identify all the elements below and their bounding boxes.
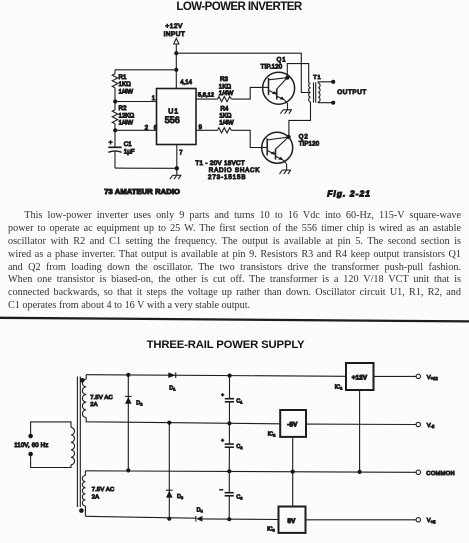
svg-text:1μF: 1μF [124, 148, 135, 155]
wire ground rail bottom [115, 167, 177, 169]
svg-text:–: – [220, 487, 223, 493]
node dot bottom rail C3 [227, 517, 231, 521]
wire +12V input vertical [175, 44, 177, 89]
wire pin 7 [176, 145, 178, 176]
svg-text:+: + [221, 438, 224, 443]
node dot rail2 C1-C2 junction [227, 421, 231, 425]
ground main [170, 175, 182, 179]
svg-text:7.5V AC: 7.5V AC [90, 395, 113, 401]
wire Q2 emitter [286, 164, 288, 170]
label Q1 [261, 57, 287, 70]
label winding A 7.5V AC 2A [90, 395, 113, 408]
svg-text:5,8,12: 5,8,12 [198, 92, 214, 98]
svg-text:RADIO SHACK: RADIO SHACK [209, 167, 261, 174]
transistor Q2 TIP120 [262, 132, 293, 164]
diode D4 [196, 516, 203, 522]
svg-text:D4: D4 [197, 507, 204, 513]
node terminal V+5 [416, 518, 420, 522]
ground Q2 emitter [280, 170, 292, 174]
wire D3 branch vertical [168, 423, 170, 519]
svg-text:IC3: IC3 [267, 527, 275, 533]
wire Q1 collector to T1 primary top [287, 64, 308, 83]
svg-text:4,14: 4,14 [180, 80, 192, 86]
wire IC1 ground [359, 390, 361, 472]
wire top rail [86, 375, 346, 377]
wire secondary A bottom lead / minus-5 rail [86, 418, 280, 424]
node Q1 collector dot [285, 76, 289, 80]
regulator IC2 -5V [280, 410, 306, 437]
node output terminal top [331, 80, 335, 84]
node terminal V-5 [416, 422, 420, 426]
node dot top rail D2 branch [126, 373, 130, 377]
wire IC2 output [306, 423, 416, 425]
svg-text:7.5V AC: 7.5V AC [92, 487, 115, 493]
label T1 part note [195, 160, 260, 181]
regulator IC3 5V [279, 507, 306, 533]
wire pin 5,8,12 to R3 [196, 98, 218, 100]
op-amp U1 556 timer body [157, 89, 197, 145]
svg-text:2A: 2A [92, 494, 100, 500]
transformer T2 secondary winding A [82, 375, 86, 418]
svg-text:1KΩ: 1KΩ [119, 81, 132, 88]
svg-text:OUTPUT: OUTPUT [337, 89, 367, 96]
svg-text:R3: R3 [220, 76, 228, 83]
diode D1 [168, 372, 175, 378]
wire IC2 ground [292, 437, 294, 472]
label winding B 7.5V AC 2A [92, 487, 115, 500]
node junction dot R1 branch [174, 68, 178, 72]
svg-text:+12V: +12V [165, 23, 183, 30]
transformer T1 primary winding [309, 83, 311, 102]
svg-text:+: + [109, 139, 113, 146]
svg-text:C3: C3 [236, 495, 243, 501]
svg-text:5V: 5V [288, 518, 297, 525]
svg-text:COMMON: COMMON [426, 471, 455, 477]
resistor R1 [112, 70, 117, 102]
svg-text:V+5: V+5 [427, 518, 436, 524]
svg-text:T1 - 20V 18VCT: T1 - 20V 18VCT [195, 160, 245, 167]
svg-text:1/4W: 1/4W [119, 88, 134, 95]
node junction dot pin7 / ground [175, 166, 179, 170]
capacitor C1 [108, 130, 121, 168]
svg-text:273-1515B: 273-1515B [208, 174, 246, 181]
svg-text:Fig. 2-21: Fig. 2-21 [327, 188, 371, 198]
svg-text:R4: R4 [220, 105, 228, 112]
svg-text:Q2: Q2 [299, 134, 309, 140]
svg-text:1/4W: 1/4W [119, 120, 134, 127]
node AC input terminal top [28, 434, 33, 439]
title THREE-RAIL POWER SUPPLY [0, 340, 451, 351]
node dot D2 common rail [126, 468, 130, 472]
svg-text:+: + [221, 393, 224, 398]
node junction dot pin1 [113, 99, 117, 103]
wire bottom rail left [85, 516, 195, 518]
resistor R3 [218, 87, 263, 101]
label R4 value [219, 105, 234, 126]
regulator IC1 +12V [346, 363, 374, 390]
svg-text:R1: R1 [119, 74, 127, 81]
wire IC3 output [306, 519, 417, 521]
svg-text:7: 7 [179, 151, 183, 157]
wire IC1 output [374, 375, 417, 377]
svg-text:1/4W: 1/4W [219, 119, 234, 126]
transformer T2 secondary winding B [82, 471, 85, 517]
svg-text:V+12: V+12 [427, 375, 439, 381]
svg-text:D3: D3 [177, 494, 184, 500]
wire common rail [85, 471, 416, 473]
svg-text:TIP120: TIP120 [299, 141, 320, 147]
svg-text:INPUT: INPUT [164, 31, 186, 38]
resistor R4 [218, 128, 263, 148]
separator rule [0, 318, 469, 322]
wire AC input bottom lead [31, 454, 71, 468]
svg-text:110V, 60 Hz: 110V, 60 Hz [14, 443, 48, 449]
label R2 value [119, 105, 135, 127]
title LOW-POWER INVERTER [0, 2, 469, 14]
transistor Q1 TIP120 [263, 72, 295, 104]
paragraph description text [8, 210, 461, 312]
wire pin 9 to R4 [196, 129, 218, 131]
svg-text:TIP.120: TIP.120 [261, 65, 283, 71]
node dot top rail C1 [228, 374, 232, 378]
capacitor C1 filter [221, 376, 234, 424]
svg-text:D1: D1 [169, 385, 176, 391]
svg-text:Q1: Q1 [277, 57, 287, 63]
node dot rail2 D3 branch [167, 421, 171, 425]
transformer T1 secondary winding [318, 82, 333, 103]
wire bottom rail to IC3 [202, 518, 278, 521]
node AC input terminal bottom [28, 452, 33, 457]
transformer T2 core [77, 377, 80, 508]
transformer T1 core [314, 82, 316, 102]
node dot common IC1 ground [358, 470, 362, 474]
node terminal V+12 [416, 374, 420, 378]
node output terminal bottom [331, 101, 335, 105]
diode D2 [125, 396, 132, 403]
svg-text:C2: C2 [236, 444, 243, 450]
svg-text:2A: 2A [90, 402, 98, 408]
svg-text:C1: C1 [236, 399, 243, 405]
wire AC input top lead [31, 422, 71, 436]
wire pin 1 [115, 101, 156, 103]
svg-text:1/4W: 1/4W [219, 90, 234, 97]
capacitor C2 filter [221, 423, 234, 471]
label R1 value [119, 74, 134, 96]
node junction dot top rail [174, 51, 178, 55]
svg-text:12KΩ: 12KΩ [119, 113, 135, 120]
label Q2 [299, 134, 320, 147]
node winding B phase dot [79, 508, 84, 513]
svg-text:R2: R2 [119, 105, 127, 112]
node Q2 collector dot [287, 135, 291, 139]
node terminal COMMON [416, 470, 420, 474]
label C1 value [124, 141, 135, 155]
node dot common IC2 ground [291, 470, 295, 474]
wire IC3 input from common [292, 472, 294, 507]
svg-text:V-5: V-5 [427, 423, 435, 429]
node +12V INPUT [164, 23, 186, 44]
wire D2 branch vertical [127, 375, 129, 471]
transformer T2 primary winding [71, 427, 75, 464]
svg-text:556: 556 [165, 115, 180, 125]
wire +12V top rail [176, 53, 310, 92]
node dot D3 bottom rail [167, 517, 171, 521]
svg-text:T1: T1 [313, 75, 321, 81]
node winding A phase dot [80, 378, 85, 383]
svg-text:+12V: +12V [352, 375, 368, 382]
svg-text:C1: C1 [124, 141, 132, 148]
wire T1 primary bottom to Q2 collector [289, 102, 311, 137]
svg-text:D2: D2 [136, 400, 143, 406]
svg-text:-5V: -5V [287, 421, 298, 428]
wire Q1 emitter [287, 104, 289, 110]
svg-text:IC2: IC2 [268, 432, 276, 438]
svg-text:73 AMATEUR RADIO: 73 AMATEUR RADIO [104, 187, 180, 196]
capacitor C3 filter [220, 471, 234, 519]
wire pins 2,6 [115, 129, 156, 131]
node junction dot pins 2,6 [113, 128, 117, 132]
ground Q1 emitter [280, 110, 292, 114]
node dot common C2-C3 junction [227, 469, 231, 473]
svg-text:IC1: IC1 [335, 385, 343, 391]
label R3 value [219, 76, 234, 97]
diode D3 [166, 490, 173, 497]
resistor R2 [112, 102, 117, 131]
wire R1 feed [115, 69, 176, 71]
